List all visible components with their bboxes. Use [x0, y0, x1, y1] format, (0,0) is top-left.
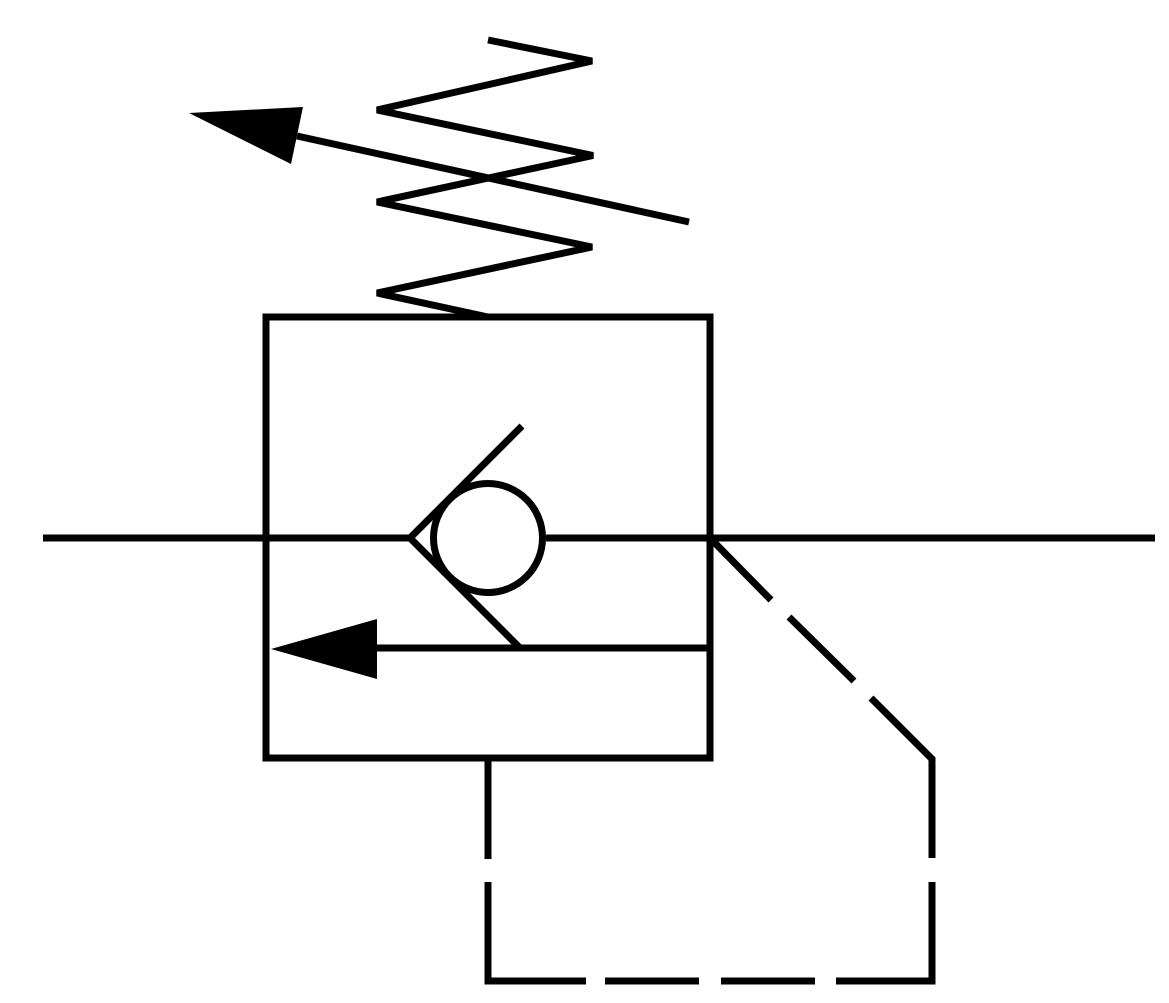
- pilot line diagonal-corner dash 3: [871, 698, 932, 858]
- spring (pressure setting spring): [377, 40, 593, 317]
- pilot line bottom-left corner dash: [488, 882, 586, 981]
- pilot line diagonal dash 1 (from node at valve outlet): [711, 539, 771, 600]
- pilot line vertical segment 1 (below valve): [485, 758, 492, 859]
- free flow arrow shaft: [377, 645, 710, 652]
- pilot line bottom-right corner dash: [836, 882, 932, 981]
- free flow arrow head: [271, 619, 377, 679]
- adjustment arrow shaft: [297, 136, 689, 222]
- pilot line bottom dash 3: [721, 978, 815, 985]
- valve body (envelope): [266, 317, 710, 758]
- check valve ball: [434, 484, 543, 593]
- pilot line diagonal dash 2: [789, 617, 854, 681]
- adjustment arrow head: [189, 107, 303, 164]
- valve seat lower arm: [410, 538, 520, 648]
- valve seat upper arm: [410, 426, 522, 538]
- pilot line bottom dash 2: [605, 978, 699, 985]
- main flow line right (port B): [546, 535, 1155, 542]
- main flow line left (port A): [43, 535, 413, 542]
